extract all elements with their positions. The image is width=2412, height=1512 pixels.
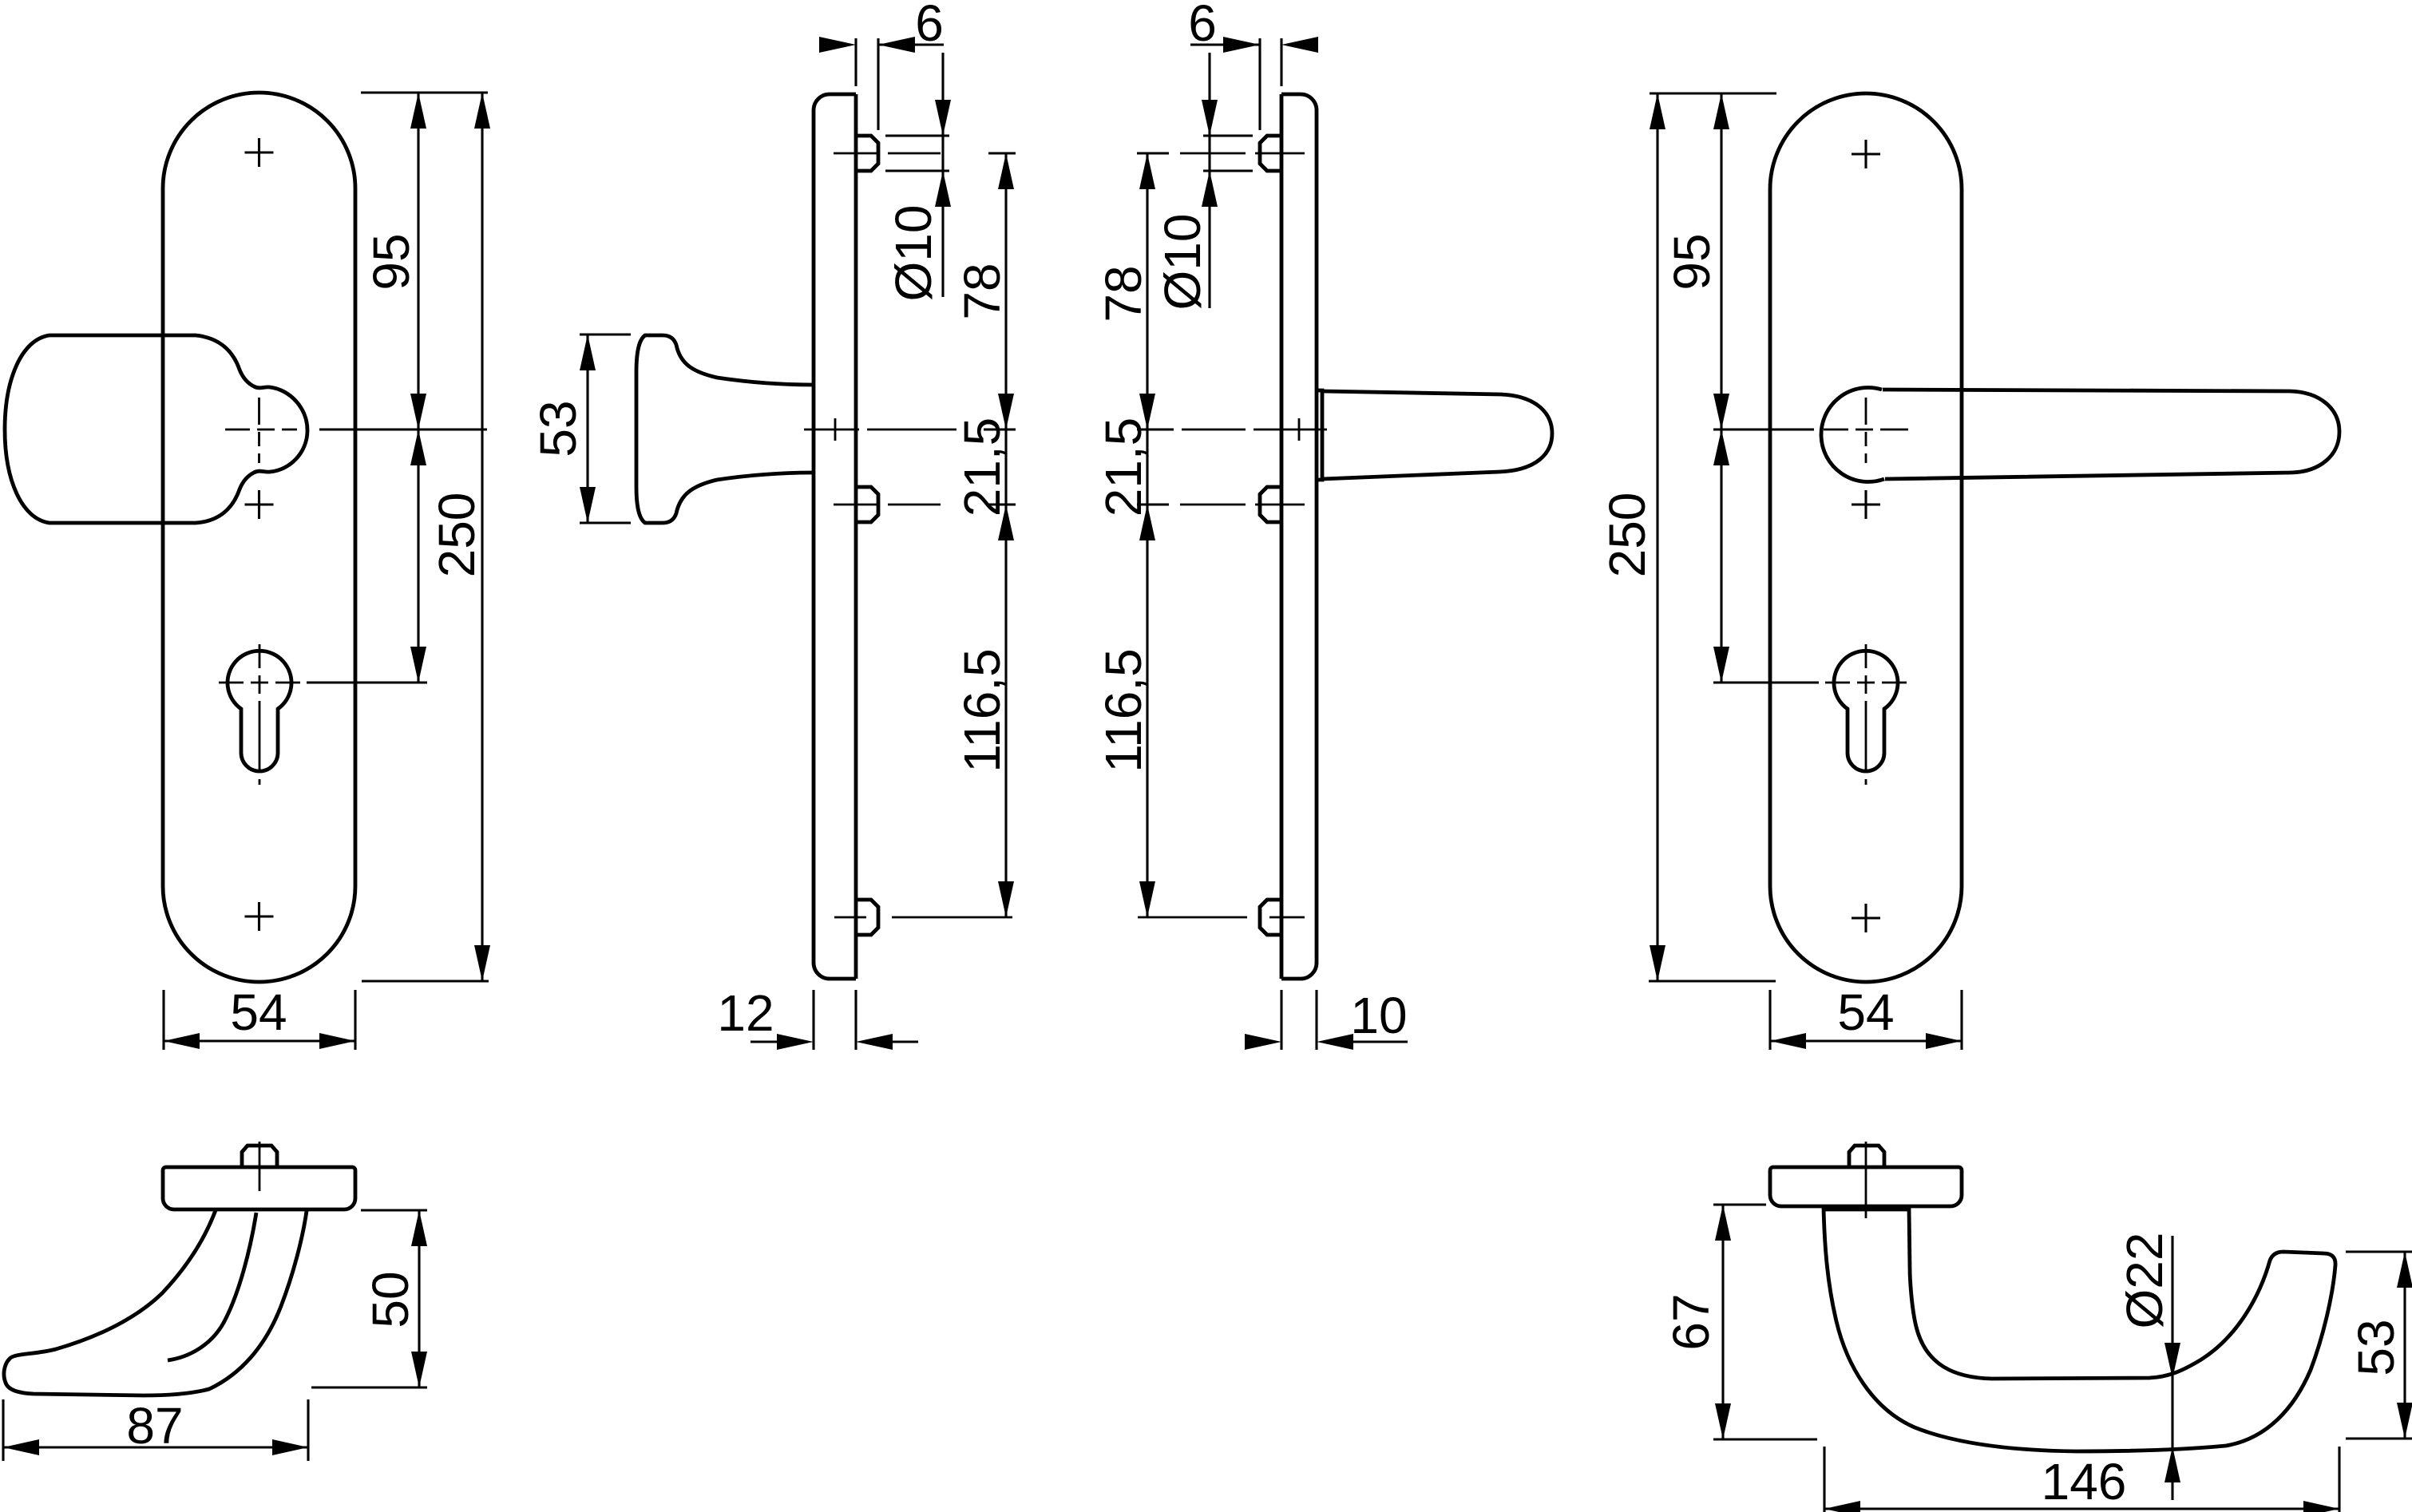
dimension line 10 P3 [1353, 1040, 1408, 1043]
dimension 87 extension lines K5 [3, 1399, 308, 1461]
rose R5 (knob profile view) [163, 1167, 355, 1209]
dimension line 95/lower segment (inner) [417, 93, 419, 683]
dimension line 54 P4 [1770, 1039, 1962, 1042]
dimension 54 extension lines [164, 990, 355, 1050]
centerline stud S6 [1138, 916, 1305, 919]
extension line bottom P1 [362, 980, 489, 982]
dimension 146 extension lines L6 [1824, 1447, 2339, 1512]
dimension line 6 P2 [878, 43, 944, 46]
cylinder hole PZ1 (profile cylinder cutout) [228, 651, 291, 771]
knob K1 (front view blob) [5, 335, 307, 523]
spindle centerline Q6 [1865, 1142, 1867, 1218]
tick handle center P3 [1137, 428, 1174, 430]
svg-text:Ø10: Ø10 [1154, 214, 1211, 311]
tick stud S4 center [1137, 152, 1169, 154]
stud S4 diameter lines [1203, 136, 1253, 171]
spindle centerline Q5 [259, 1142, 261, 1191]
svg-text:67: 67 [1662, 1293, 1720, 1350]
svg-text:116,5: 116,5 [953, 648, 1011, 772]
svg-text:50: 50 [362, 1271, 419, 1328]
dimension line 67 L6 [1721, 1205, 1724, 1439]
svg-text:21,5: 21,5 [953, 418, 1011, 517]
svg-text:95: 95 [1663, 233, 1721, 290]
centerline cross knob K1 (dashed) [225, 429, 297, 431]
centerline stud S1 [834, 152, 941, 155]
dimension line Ø10 P2 [941, 53, 944, 297]
cylinder hole PZ4 [1834, 651, 1898, 771]
fixing stud S5 middle P3 [1260, 487, 1281, 522]
backplate P2 (side profile, knob side) [814, 94, 856, 979]
dimension line 53 L6 [2403, 1252, 2406, 1439]
knob middle contour K5 [168, 1213, 256, 1360]
screw cross top P1 [245, 138, 274, 167]
tick stud S1 center [988, 152, 1016, 154]
svg-text:53: 53 [2347, 1319, 2405, 1375]
extension line cylinder center P4 [1713, 681, 1819, 683]
centerline stud S4 [1180, 152, 1305, 155]
extension line top P1 [361, 91, 488, 93]
svg-text:Ø22: Ø22 [2116, 1233, 2173, 1329]
extension line cylinder center P1 [307, 681, 427, 683]
svg-text:21,5: 21,5 [1095, 418, 1152, 517]
svg-text:6: 6 [915, 0, 944, 52]
screw cross top P4 [1852, 140, 1880, 168]
centerline stud S3 [834, 916, 1012, 919]
lever body L6 (side profile) [1824, 1208, 2335, 1451]
dimension line 250 (outer) [481, 93, 483, 981]
svg-text:12: 12 [717, 984, 774, 1042]
svg-text:78: 78 [953, 263, 1011, 319]
centerline cross cylinder PZ4 [1825, 682, 1907, 684]
dimension 53 ticks L6 [2346, 1252, 2412, 1439]
rose R6 (lever profile view) [1770, 1167, 1962, 1206]
lever handle L3 (side profile) [1317, 390, 1322, 480]
dimension 6 extension lines P2 [856, 38, 878, 130]
fixing stud S6 bottom P3 [1260, 900, 1281, 935]
dimension line 54 [164, 1039, 355, 1042]
spindle square Q6 [1849, 1146, 1884, 1167]
extension line handle center P4 [1713, 428, 1814, 430]
fixing stud S1 top P2 [856, 136, 878, 171]
collar ring L6 [1824, 1208, 1909, 1212]
centerline stud S5 [1180, 504, 1305, 506]
lever grip L4 (front view) [1883, 390, 2339, 479]
dimension line Ø10 P3 [1208, 53, 1210, 308]
dimension line 95/lower segment (inner) P4 [1720, 93, 1722, 683]
lever knuckle L4 [1821, 387, 1884, 481]
fixing stud S2 middle P2 [856, 487, 878, 522]
dimension line 87 K5 [3, 1446, 308, 1448]
screw cross middle P4 [1852, 490, 1880, 519]
centerline cross cylinder PZ1 [219, 682, 300, 684]
svg-text:78: 78 [1095, 265, 1152, 322]
knob K2 (side profile) [636, 335, 814, 523]
screw cross middle P1 [245, 490, 274, 519]
dimension line 146 L6 [1824, 1507, 2339, 1510]
dimension 50 ticks K5 [311, 1210, 427, 1387]
dimension line 50 K5 [418, 1210, 420, 1387]
dimension line 12 P2 [751, 1040, 918, 1043]
extension line handle center P1 [319, 428, 487, 430]
backplate P1 (front view, knob side) [163, 93, 355, 982]
svg-text:116,5: 116,5 [1095, 648, 1152, 772]
screw cross bottom P1 [245, 902, 274, 931]
tick stud S2 center [988, 503, 1016, 505]
svg-text:53: 53 [529, 400, 587, 457]
dimension line 53 K2 [586, 334, 588, 523]
dimension 67 ticks L6 [1713, 1205, 1817, 1439]
svg-text:Ø10: Ø10 [885, 205, 942, 302]
centerline stud S2 [834, 504, 941, 506]
svg-text:54: 54 [230, 984, 287, 1041]
tick stud S5 center [1137, 503, 1169, 505]
dimension 12 extension lines P2 [814, 990, 856, 1050]
svg-text:95: 95 [362, 233, 420, 290]
screw cross bottom P4 [1852, 904, 1880, 932]
dimension 6 extension lines P3 [1260, 38, 1281, 130]
dimension 54 extension lines P4 [1770, 990, 1962, 1050]
extension line bottom P4 [1649, 980, 1776, 982]
centerline plate P2 [804, 429, 956, 431]
extension line top P4 [1650, 92, 1776, 94]
svg-text:10: 10 [1350, 987, 1407, 1044]
svg-text:6: 6 [1188, 0, 1217, 52]
stud S1 diameter lines [885, 136, 949, 171]
dimension line 78/21,5/116,5 P3 [1146, 153, 1148, 917]
svg-text:87: 87 [126, 1397, 183, 1455]
backplate P3 (side profile, lever side) [1281, 94, 1317, 979]
dimension line Ø22 L6 [2171, 1236, 2173, 1500]
backplate P4 (front view, lever side) [1770, 93, 1962, 982]
svg-text:250: 250 [1598, 493, 1656, 578]
svg-text:250: 250 [428, 493, 485, 578]
dimension line 78/21,5/116,5 P2 [1004, 153, 1007, 917]
spindle square Q5 [242, 1146, 277, 1167]
svg-text:146: 146 [2042, 1453, 2127, 1510]
centerline plate P3 [1182, 429, 1327, 431]
dimension line 250 (outer) P4 [1656, 93, 1658, 981]
tick handle center P2 [984, 428, 1016, 430]
fixing stud S4 top P3 [1260, 136, 1281, 171]
dimension line 6 P3 [1190, 43, 1260, 46]
knob body K5 (side profile) [4, 1210, 307, 1395]
fixing stud S3 bottom P2 [856, 900, 878, 935]
centerline cross lever L4 (dashed) [1824, 429, 1908, 431]
dimension 10 extension lines P3 [1281, 990, 1317, 1050]
svg-text:54: 54 [1837, 984, 1894, 1041]
dimension 53 ticks K2 [580, 334, 631, 523]
